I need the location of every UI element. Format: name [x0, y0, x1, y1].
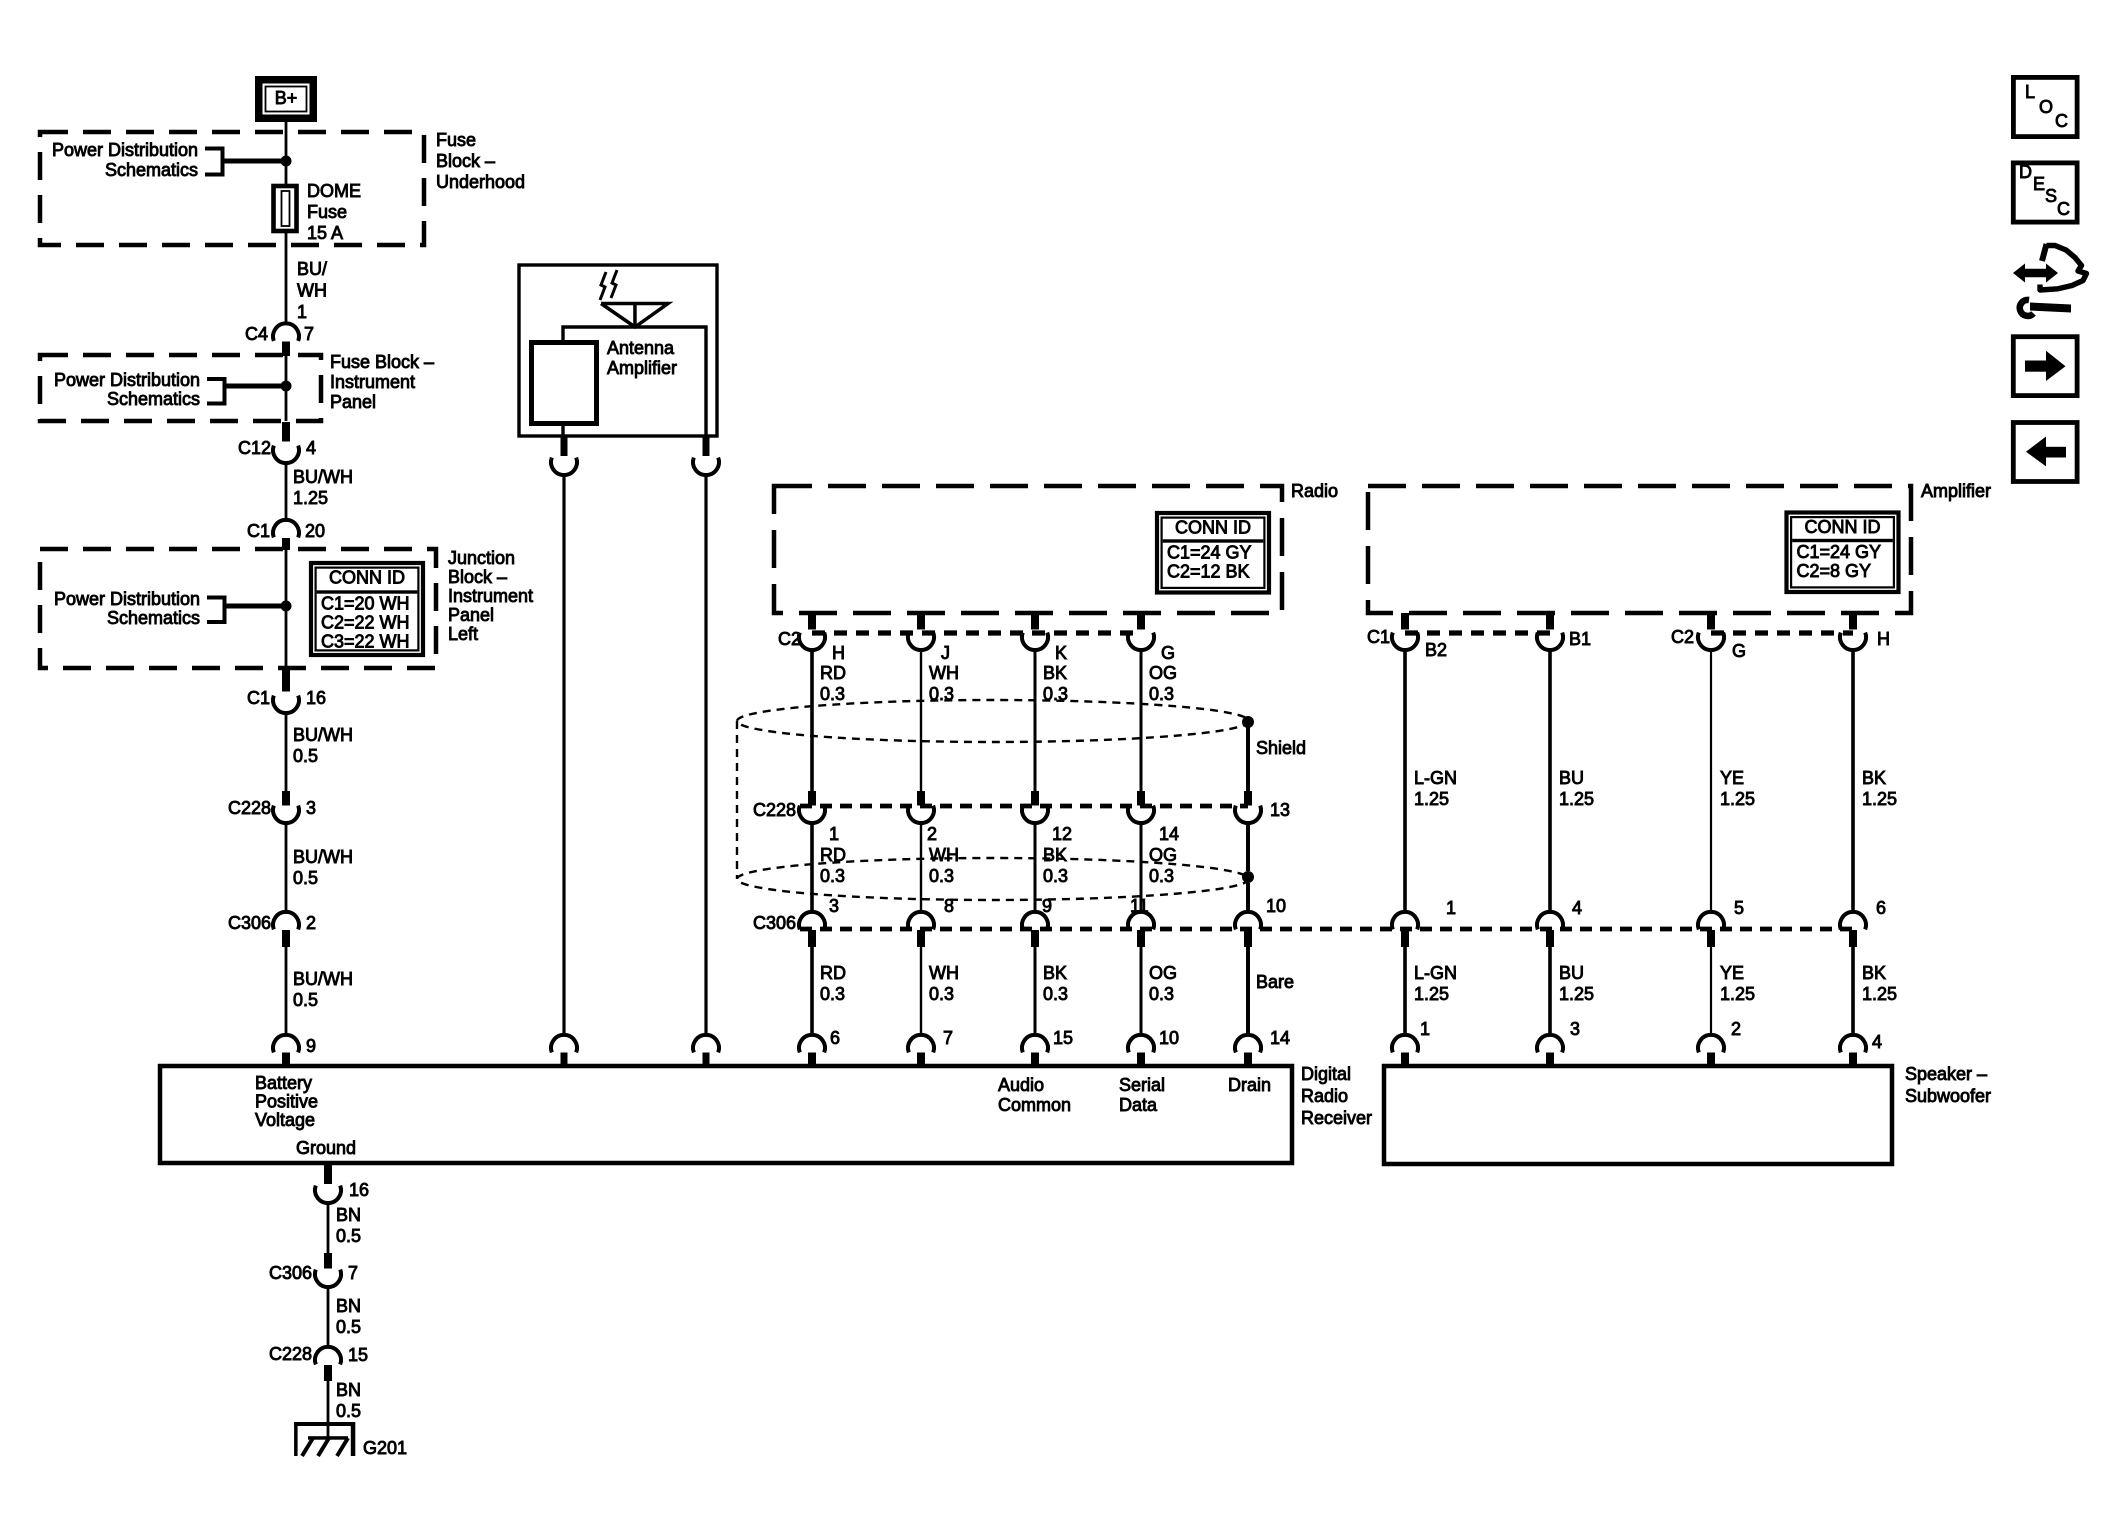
svg-text:L-GN: L-GN: [1414, 963, 1457, 983]
svg-text:Subwoofer: Subwoofer: [1905, 1086, 1991, 1106]
svg-text:15 A: 15 A: [307, 223, 343, 243]
svg-text:Voltage: Voltage: [255, 1110, 315, 1130]
svg-text:BU/WH: BU/WH: [293, 969, 353, 989]
svg-text:1.25: 1.25: [1414, 789, 1449, 809]
svg-text:Ground: Ground: [296, 1138, 356, 1158]
svg-text:CONN ID: CONN ID: [1175, 518, 1251, 538]
svg-text:0.5: 0.5: [336, 1401, 361, 1421]
svg-text:BU/WH: BU/WH: [293, 847, 353, 867]
svg-text:0.3: 0.3: [1043, 866, 1068, 886]
svg-text:Block –: Block –: [436, 151, 495, 171]
svg-text:C228: C228: [753, 800, 796, 820]
svg-text:CONN ID: CONN ID: [1805, 517, 1881, 537]
svg-text:7: 7: [943, 1028, 953, 1048]
svg-text:Panel: Panel: [330, 392, 376, 412]
svg-text:Battery: Battery: [255, 1073, 312, 1093]
svg-text:Instrument: Instrument: [448, 586, 533, 606]
svg-text:C1: C1: [1367, 627, 1390, 647]
svg-text:Amplifier: Amplifier: [1921, 481, 1991, 501]
svg-text:1.25: 1.25: [1862, 984, 1897, 1004]
svg-text:0.3: 0.3: [820, 684, 845, 704]
svg-text:1: 1: [829, 824, 839, 844]
svg-text:Digital: Digital: [1301, 1064, 1351, 1084]
svg-text:Schematics: Schematics: [107, 608, 200, 628]
svg-text:Left: Left: [448, 624, 478, 644]
svg-text:Data: Data: [1119, 1095, 1158, 1115]
svg-text:Block –: Block –: [448, 567, 507, 587]
svg-text:0.3: 0.3: [820, 866, 845, 886]
svg-text:0.3: 0.3: [929, 866, 954, 886]
svg-text:H: H: [1877, 629, 1890, 649]
svg-text:14: 14: [1270, 1028, 1290, 1048]
svg-text:RD: RD: [820, 963, 846, 983]
svg-text:OG: OG: [1149, 845, 1177, 865]
svg-text:6: 6: [1876, 898, 1886, 918]
svg-text:9: 9: [306, 1036, 316, 1056]
svg-text:C2=12 BK: C2=12 BK: [1167, 562, 1250, 582]
svg-text:16: 16: [306, 688, 326, 708]
svg-text:OG: OG: [1149, 963, 1177, 983]
svg-text:Audio: Audio: [998, 1075, 1044, 1095]
svg-text:2: 2: [1731, 1019, 1741, 1039]
svg-text:2: 2: [306, 913, 316, 933]
svg-text:C4: C4: [245, 324, 268, 344]
svg-text:Radio: Radio: [1291, 481, 1338, 501]
svg-text:OG: OG: [1149, 663, 1177, 683]
svg-text:YE: YE: [1720, 768, 1744, 788]
svg-text:10: 10: [1266, 896, 1286, 916]
svg-text:12: 12: [1052, 824, 1072, 844]
svg-text:C228: C228: [228, 798, 271, 818]
svg-text:WH: WH: [929, 663, 959, 683]
svg-text:Serial: Serial: [1119, 1075, 1165, 1095]
svg-text:RD: RD: [820, 663, 846, 683]
svg-text:Receiver: Receiver: [1301, 1108, 1372, 1128]
svg-text:0.5: 0.5: [293, 868, 318, 888]
svg-text:BU: BU: [1559, 768, 1584, 788]
svg-text:C2=8 GY: C2=8 GY: [1797, 561, 1872, 581]
svg-text:YE: YE: [1720, 963, 1744, 983]
svg-text:C2=22 WH: C2=22 WH: [321, 613, 410, 633]
svg-text:1.25: 1.25: [1720, 789, 1755, 809]
svg-text:Junction: Junction: [448, 548, 515, 568]
svg-text:1: 1: [1420, 1019, 1430, 1039]
svg-text:7: 7: [304, 324, 314, 344]
svg-text:Schematics: Schematics: [105, 160, 198, 180]
svg-text:0.3: 0.3: [820, 984, 845, 1004]
svg-text:BN: BN: [336, 1205, 361, 1225]
svg-text:0.3: 0.3: [1149, 684, 1174, 704]
svg-text:15: 15: [348, 1345, 368, 1365]
svg-text:Amplifier: Amplifier: [607, 358, 677, 378]
svg-text:DOME: DOME: [307, 181, 361, 201]
svg-text:0.5: 0.5: [336, 1226, 361, 1246]
svg-text:Drain: Drain: [1228, 1075, 1271, 1095]
svg-text:Panel: Panel: [448, 605, 494, 625]
svg-text:Instrument: Instrument: [330, 372, 415, 392]
svg-text:B+: B+: [275, 88, 298, 108]
svg-text:C1=20 WH: C1=20 WH: [321, 594, 410, 614]
svg-text:Fuse Block –: Fuse Block –: [330, 352, 434, 372]
svg-text:Positive: Positive: [255, 1092, 318, 1112]
svg-text:0.5: 0.5: [293, 746, 318, 766]
svg-text:C2: C2: [778, 629, 801, 649]
svg-text:D: D: [2019, 162, 2032, 182]
svg-text:4: 4: [306, 438, 316, 458]
svg-text:1.25: 1.25: [1559, 984, 1594, 1004]
svg-text:BU: BU: [1559, 963, 1584, 983]
svg-text:10: 10: [1159, 1028, 1179, 1048]
svg-text:BK: BK: [1043, 845, 1067, 865]
svg-text:BK: BK: [1862, 963, 1886, 983]
svg-text:0.3: 0.3: [1149, 984, 1174, 1004]
svg-text:K: K: [1055, 643, 1067, 663]
svg-text:C1=24 GY: C1=24 GY: [1797, 542, 1882, 562]
svg-text:G201: G201: [363, 1438, 407, 1458]
svg-text:1.25: 1.25: [1559, 789, 1594, 809]
svg-text:WH: WH: [929, 845, 959, 865]
svg-text:Fuse: Fuse: [307, 202, 347, 222]
svg-text:O: O: [2039, 97, 2053, 117]
svg-text:C306: C306: [753, 913, 796, 933]
svg-text:15: 15: [1053, 1028, 1073, 1048]
svg-text:4: 4: [1572, 898, 1582, 918]
svg-text:CONN ID: CONN ID: [329, 568, 405, 588]
svg-text:BU/: BU/: [297, 259, 327, 279]
svg-text:C306: C306: [228, 913, 271, 933]
svg-text:WH: WH: [929, 963, 959, 983]
svg-text:C2: C2: [1671, 627, 1694, 647]
svg-text:0.5: 0.5: [336, 1317, 361, 1337]
svg-text:1: 1: [1446, 898, 1456, 918]
svg-text:C3=22 WH: C3=22 WH: [321, 632, 410, 652]
svg-text:C: C: [2055, 111, 2068, 131]
svg-text:WH: WH: [297, 281, 327, 301]
svg-text:16: 16: [349, 1180, 369, 1200]
svg-text:L: L: [2025, 82, 2035, 102]
svg-text:Shield: Shield: [1256, 738, 1306, 758]
svg-text:0.3: 0.3: [929, 984, 954, 1004]
svg-text:L-GN: L-GN: [1414, 768, 1457, 788]
svg-text:BU/WH: BU/WH: [293, 467, 353, 487]
svg-text:3: 3: [1570, 1019, 1580, 1039]
svg-text:Antenna: Antenna: [607, 338, 675, 358]
svg-text:Power Distribution: Power Distribution: [54, 370, 200, 390]
svg-text:C1: C1: [247, 688, 270, 708]
svg-text:1.25: 1.25: [1720, 984, 1755, 1004]
svg-text:0.5: 0.5: [293, 990, 318, 1010]
svg-text:20: 20: [305, 521, 325, 541]
svg-text:C: C: [2057, 199, 2070, 219]
svg-text:Power Distribution: Power Distribution: [52, 140, 198, 160]
svg-text:11: 11: [1130, 896, 1149, 916]
svg-text:BU/WH: BU/WH: [293, 725, 353, 745]
svg-text:B1: B1: [1569, 629, 1591, 649]
svg-text:6: 6: [830, 1028, 840, 1048]
svg-text:2: 2: [927, 824, 937, 844]
svg-text:H: H: [832, 643, 845, 663]
svg-text:Fuse: Fuse: [436, 130, 476, 150]
svg-text:S: S: [2045, 186, 2057, 206]
svg-text:BK: BK: [1043, 663, 1067, 683]
svg-text:1: 1: [297, 302, 307, 322]
svg-text:0.3: 0.3: [1149, 866, 1174, 886]
svg-text:Radio: Radio: [1301, 1086, 1348, 1106]
svg-text:Schematics: Schematics: [107, 389, 200, 409]
svg-text:3: 3: [306, 798, 316, 818]
svg-text:Underhood: Underhood: [436, 172, 525, 192]
svg-text:E: E: [2033, 174, 2045, 194]
svg-text:B2: B2: [1425, 640, 1447, 660]
svg-text:5: 5: [1734, 898, 1744, 918]
svg-text:C1=24 GY: C1=24 GY: [1167, 543, 1252, 563]
svg-text:C306: C306: [269, 1263, 312, 1283]
svg-text:J: J: [941, 643, 950, 663]
svg-text:C12: C12: [238, 438, 271, 458]
svg-text:Bare: Bare: [1256, 972, 1294, 992]
svg-text:BK: BK: [1862, 768, 1886, 788]
svg-text:Power Distribution: Power Distribution: [54, 589, 200, 609]
svg-text:4: 4: [1872, 1032, 1882, 1052]
svg-text:Common: Common: [998, 1095, 1071, 1115]
svg-text:Speaker –: Speaker –: [1905, 1064, 1987, 1084]
svg-text:13: 13: [1270, 800, 1290, 820]
svg-text:BN: BN: [336, 1380, 361, 1400]
svg-text:1.25: 1.25: [1862, 789, 1897, 809]
svg-text:C228: C228: [269, 1344, 312, 1364]
svg-text:1.25: 1.25: [293, 488, 328, 508]
svg-text:1.25: 1.25: [1414, 984, 1449, 1004]
svg-text:C1: C1: [247, 521, 270, 541]
svg-text:7: 7: [348, 1263, 358, 1283]
svg-text:0.3: 0.3: [1043, 984, 1068, 1004]
svg-text:G: G: [1732, 641, 1746, 661]
svg-text:3: 3: [829, 896, 839, 916]
svg-text:BK: BK: [1043, 963, 1067, 983]
svg-text:BN: BN: [336, 1296, 361, 1316]
svg-text:G: G: [1161, 643, 1175, 663]
svg-text:14: 14: [1159, 824, 1179, 844]
